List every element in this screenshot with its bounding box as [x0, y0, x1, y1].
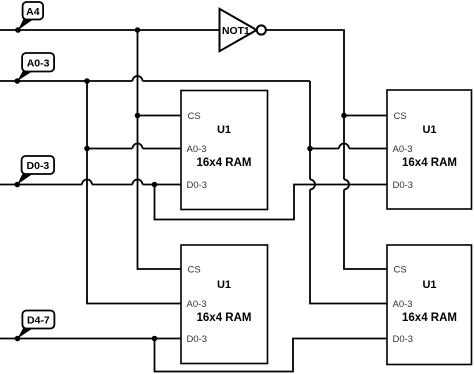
wire hop of NOT1 output vertical over D0-3 link — [344, 180, 349, 190]
wire A0-3 left vertical to U1 bottom-left A0-3 — [87, 81, 181, 304]
wire branch to U1 top-left CS — [138, 115, 182, 117]
svg-text:NOT1: NOT1 — [222, 26, 250, 37]
svg-text:U1: U1 — [217, 124, 231, 136]
RAM U1 top-right — [387, 90, 472, 209]
wire D0-3 horizontal bus with hops over two verticals — [0, 184, 181, 186]
wire D4-7 horizontal bus — [0, 338, 182, 340]
wire NOT1 output — [266, 30, 387, 269]
svg-text:A0-3: A0-3 — [393, 299, 413, 310]
junction at top-left CS branch — [135, 113, 141, 119]
svg-text:CS: CS — [394, 264, 407, 275]
svg-text:D0-3: D0-3 — [27, 160, 50, 172]
svg-text:A0-3: A0-3 — [27, 57, 50, 69]
wire A0-3 horizontal bus with hop over A4 vertical — [0, 80, 310, 82]
svg-text:16x4 RAM: 16x4 RAM — [197, 157, 252, 169]
svg-text:CS: CS — [188, 111, 201, 122]
net label A4 — [15, 2, 43, 33]
junction on A0-3 wire — [84, 78, 90, 84]
junction at top-left A0-3 branch — [84, 146, 90, 152]
svg-text:16x4 RAM: 16x4 RAM — [402, 312, 457, 324]
svg-text:D0-3: D0-3 — [187, 180, 208, 191]
wire A0-3 right vertical to U1 bottom-right A0-3 with hop over D0-3 link — [310, 81, 387, 304]
svg-text:A4: A4 — [26, 6, 40, 18]
wire branch to U1 top-left A0-3 with hop — [87, 148, 181, 150]
wire D0-3 link under U1 top-left to U1 top-right D0-3 — [155, 185, 388, 220]
wire D4-7 link under U1 bottom-left to U1 bottom-right D0-3 — [155, 339, 388, 372]
svg-text:A0-3: A0-3 — [187, 299, 207, 310]
wire A4 horizontal bus — [0, 29, 220, 31]
svg-text:D0-3: D0-3 — [393, 180, 414, 191]
svg-text:U1: U1 — [217, 279, 231, 291]
wire branch to U1 top-right CS — [344, 115, 387, 117]
RAM U1 bottom-left — [181, 245, 268, 364]
svg-text:A0-3: A0-3 — [393, 144, 413, 155]
net label A0-3 — [14, 53, 54, 84]
svg-text:16x4 RAM: 16x4 RAM — [197, 312, 252, 324]
junction on D4-7 wire — [152, 336, 158, 342]
junction on D0-3 wire — [152, 182, 158, 188]
junction at top-right CS branch — [341, 113, 347, 119]
wire A4 vertical branch to left CS pins — [138, 30, 182, 269]
svg-text:D4-7: D4-7 — [27, 315, 50, 327]
svg-text:16x4 RAM: 16x4 RAM — [402, 157, 457, 169]
junction at top-right A0-3 branch — [307, 146, 313, 152]
svg-text:CS: CS — [394, 111, 407, 122]
svg-text:U1: U1 — [422, 124, 436, 136]
net label D0-3 — [14, 156, 54, 187]
RAM U1 top-left — [181, 91, 268, 210]
svg-text:A0-3: A0-3 — [187, 144, 207, 155]
svg-text:D0-3: D0-3 — [393, 334, 414, 345]
net label D4-7 — [15, 311, 55, 342]
wire branch to U1 top-right A0-3 with hop over NOT1 vertical — [310, 148, 387, 150]
svg-text:D0-3: D0-3 — [187, 334, 208, 345]
RAM U1 bottom-right — [387, 245, 472, 365]
inverter NOT1 — [220, 9, 266, 51]
svg-text:CS: CS — [188, 264, 201, 275]
svg-text:U1: U1 — [422, 279, 436, 291]
junction on A4 wire — [135, 27, 141, 33]
